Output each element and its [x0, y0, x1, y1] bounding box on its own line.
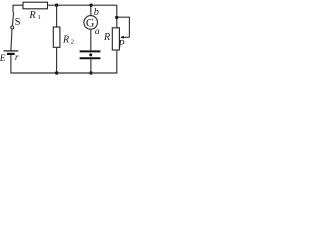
node A junction dot [55, 3, 58, 6]
resistor R box (rheostat) [112, 28, 119, 50]
capacitor top plate [80, 50, 101, 52]
junction dot right branch [115, 16, 118, 19]
svg-text:R: R [103, 32, 110, 43]
wire R box to bottom-right corner [116, 50, 118, 74]
resistor R1 box [23, 2, 48, 9]
svg-text:2: 2 [71, 39, 74, 46]
svg-text:S: S [15, 17, 21, 28]
resistor R2 box [53, 27, 60, 47]
node b junction dot on top wire [89, 3, 92, 6]
wire left lower (switch to battery) [11, 29, 12, 50]
battery E short thick plate [7, 53, 15, 55]
switch S blade [12, 12, 13, 26]
svg-text:a: a [95, 26, 100, 37]
wire top from left corner to R1 [13, 4, 23, 6]
svg-text:G: G [86, 16, 95, 30]
svg-text:E: E [0, 54, 6, 64]
wire bottom right section [57, 72, 117, 74]
wire battery to bottom-left corner [11, 55, 57, 74]
wire left upper (corner down to switch) [12, 5, 14, 13]
slider arrow shaft [122, 36, 130, 38]
wire node A down to R2 [56, 5, 58, 27]
battery E long plate [4, 50, 19, 52]
wire node b down to G [90, 5, 92, 15]
wire slider branch: right then down [117, 17, 130, 38]
wire G down to capacitor [90, 29, 92, 50]
slider arrowhead pointing left at R [120, 36, 124, 39]
svg-text:1: 1 [38, 14, 41, 21]
galvanometer G circle [84, 16, 98, 30]
svg-text:P: P [117, 39, 125, 50]
switch S contact circle [11, 26, 14, 29]
svg-text:R: R [28, 10, 36, 21]
junction dot capacitor bottom [89, 71, 92, 74]
svg-text:r: r [15, 53, 19, 63]
wire R2 down to bottom wire [56, 47, 58, 73]
junction dot R2 bottom [55, 71, 58, 74]
wire capacitor to bottom wire [90, 59, 92, 73]
wire top right corner down to node P-branch [91, 5, 117, 28]
charged particle dot between plates [89, 53, 92, 56]
svg-text:R: R [62, 35, 69, 46]
wire R1 to node A [48, 4, 92, 6]
capacitor bottom plate [80, 57, 101, 59]
